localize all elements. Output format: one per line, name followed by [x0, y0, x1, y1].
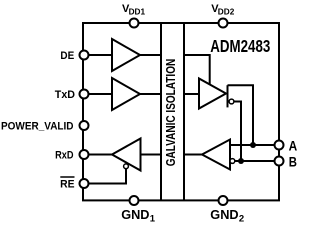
- wire RxD pin to receiver U3 output: [87, 154, 112, 156]
- svg-text:TxD: TxD: [55, 89, 75, 101]
- buffer U2 (TxD isolation channel): [112, 78, 140, 110]
- svg-text:DD2: DD2: [218, 8, 235, 17]
- svg-text:2: 2: [239, 214, 244, 224]
- svg-text:DD1: DD1: [129, 8, 146, 17]
- driver U4 output bar: [227, 85, 229, 107]
- driver U4 triangle: [199, 79, 226, 109]
- RE overline: [60, 176, 74, 178]
- pin POWER_VALID: [80, 121, 89, 130]
- receiver buffer U3 (RxD channel): [112, 139, 141, 171]
- wire TxD pin to buffer U2 input: [87, 93, 112, 95]
- pin GND1: [130, 196, 139, 205]
- pin VDD1: [130, 19, 139, 28]
- svg-text:B: B: [289, 153, 297, 169]
- pin GND2: [219, 196, 228, 205]
- wire receiver U5 noninverting input to pin A: [230, 144, 275, 146]
- wire buffer U2 output to barrier: [139, 93, 161, 95]
- driver U4 inverting output bubble: [229, 99, 234, 104]
- wire RE pin to receiver enable bubble: [87, 165, 126, 184]
- pin VDD2: [219, 19, 228, 28]
- pin B: [275, 157, 284, 166]
- wire barrier to driver U4 enable: [184, 55, 210, 86]
- svg-text:DE: DE: [60, 50, 74, 62]
- isolation barrier left line: [160, 23, 162, 200]
- isolation barrier right line: [183, 23, 185, 200]
- pin TxD: [80, 90, 89, 99]
- junction dot on node A: [250, 142, 256, 148]
- svg-text:GALVANIC ISOLATION: GALVANIC ISOLATION: [164, 59, 178, 167]
- svg-text:RE: RE: [60, 178, 74, 190]
- receiver U5 triangle: [202, 140, 230, 170]
- svg-text:A: A: [289, 137, 298, 153]
- svg-text:RxD: RxD: [55, 149, 73, 161]
- wire receiver U5 inverting input to pin B: [232, 160, 275, 162]
- svg-text:ADM2483: ADM2483: [210, 37, 270, 56]
- wire driver U4 inverting output to node B: [234, 102, 242, 162]
- buffer U1 (DE isolation channel): [112, 39, 140, 71]
- wire barrier to receiver U3 input: [141, 154, 162, 156]
- wire driver U4 noninverting output to node A: [228, 85, 254, 145]
- pin RE: [80, 179, 89, 188]
- pin RxD: [80, 150, 89, 159]
- wire DE pin to buffer U1 input: [87, 54, 112, 56]
- junction dot on node B: [238, 158, 244, 164]
- wire receiver U5 output to barrier: [184, 154, 203, 156]
- pin DE: [80, 51, 89, 60]
- receiver U3 enable bubble: [124, 164, 129, 169]
- receiver U5 inverting input bubble: [230, 159, 235, 164]
- svg-text:GND: GND: [121, 207, 149, 222]
- svg-text:GND: GND: [210, 207, 238, 222]
- svg-text:POWER_VALID: POWER_VALID: [1, 120, 74, 132]
- pin A: [275, 141, 284, 150]
- wire barrier to driver U4 input: [184, 93, 199, 95]
- IC outline box: [83, 23, 279, 200]
- svg-text:1: 1: [150, 214, 156, 224]
- wire buffer U1 output to barrier: [139, 54, 161, 56]
